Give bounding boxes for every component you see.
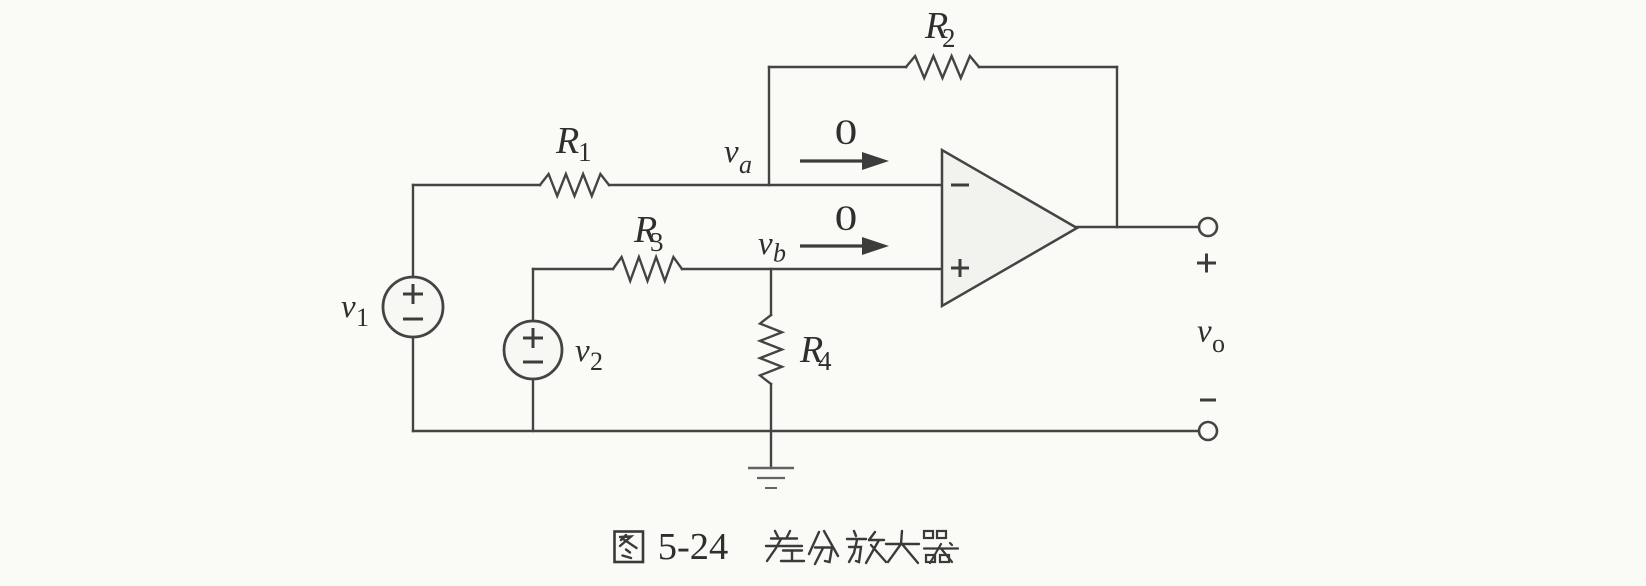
resistor R2 (906, 56, 979, 78)
svg-text:o: o (1212, 329, 1225, 358)
svg-text:R: R (555, 120, 579, 162)
svg-text:0: 0 (835, 198, 858, 238)
caption hanzi cha (差) (766, 531, 804, 561)
wire: v1 branch lower vertical (412, 337, 414, 431)
plus sign output (1197, 254, 1216, 273)
minus sign output (1200, 399, 1216, 402)
terminal top (output +) (1199, 218, 1217, 236)
arrow current 0 into plus input (800, 237, 889, 255)
svg-text:a: a (739, 150, 752, 179)
svg-text:v: v (1197, 314, 1212, 350)
svg-text:v: v (575, 333, 590, 369)
wire: op-amp output to terminal (1077, 226, 1199, 228)
wire: R1 right to op-amp minus input through node va (609, 184, 942, 186)
wire: R4 bottom to bottom bus (770, 384, 772, 431)
wire: node vb vertical down to R4 (770, 269, 772, 315)
source v2 (504, 321, 562, 379)
caption hanzi da (大) (886, 531, 919, 563)
caption hanzi tu (图) (615, 532, 644, 563)
caption hanzi fen (分) (809, 531, 838, 564)
wire: bottom bus (413, 430, 1199, 432)
caption hanzi fang (放) (847, 531, 886, 563)
source v1 (383, 277, 443, 337)
ground (748, 468, 794, 488)
wire: v1 top to R1 left (minus input line) (413, 184, 540, 186)
resistor R3 (613, 257, 682, 281)
svg-text:b: b (773, 239, 786, 268)
terminal bottom (output -) (1199, 422, 1217, 440)
wire: node va vertical up to feedback (768, 67, 770, 185)
wire: feedback right vertical down to output (1116, 67, 1118, 227)
wire: v2 top vertical to R3 (532, 269, 534, 321)
resistor R4 (760, 315, 782, 384)
resistor R1 (540, 174, 609, 196)
svg-text:3: 3 (650, 227, 664, 257)
wire: R3 left segment (533, 268, 613, 270)
wire: feedback top right segment (979, 66, 1117, 68)
op-amp U1 (942, 150, 1077, 306)
caption hanzi qi (器) (924, 531, 958, 563)
svg-text:1: 1 (356, 303, 369, 332)
svg-text:2: 2 (942, 23, 956, 53)
svg-text:1: 1 (578, 137, 592, 167)
svg-text:4: 4 (818, 346, 832, 376)
wire: v2 branch lower vertical (532, 379, 534, 431)
svg-text:v: v (758, 226, 773, 262)
arrow current 0 into minus input (800, 152, 889, 170)
svg-text:5-24: 5-24 (658, 526, 729, 568)
wire: R3 right to op-amp plus input through node vb (682, 268, 942, 270)
svg-text:0: 0 (835, 112, 858, 152)
wire: v1 branch upper vertical (412, 185, 414, 277)
wire: ground stem (770, 431, 772, 468)
svg-text:v: v (724, 134, 739, 170)
svg-text:2: 2 (590, 347, 603, 376)
svg-text:v: v (341, 289, 356, 325)
wire: feedback top left segment (769, 66, 906, 68)
